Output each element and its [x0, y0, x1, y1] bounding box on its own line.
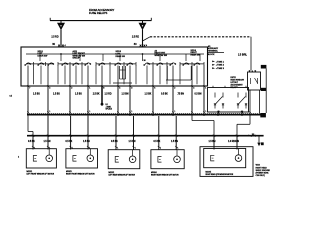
svg-text:DOOR SW: DOOR SW — [38, 55, 48, 57]
wire - top feed bus from accessory fuse relays — [50, 20, 152, 22]
svg-text:RIGHT FRONT WINDOW LIFT MOTOR: RIGHT FRONT WINDOW LIFT MOTOR — [66, 173, 95, 175]
pins - switch box top — [212, 86, 214, 88]
svg-text:0.5 BK: 0.5 BK — [154, 141, 161, 143]
wires - internal links in switch group — [113, 82, 132, 84]
svg-text:1.5 BN: 1.5 BN — [44, 141, 51, 143]
svg-text:1.5 BU: 1.5 BU — [83, 141, 90, 143]
svg-text:M33/1: M33/1 — [27, 171, 33, 173]
svg-text:1.5 BU: 1.5 BU — [53, 93, 60, 95]
svg-text:2.5 RD: 2.5 RD — [132, 36, 139, 38]
svg-text:2.5 RD: 2.5 RD — [51, 36, 58, 38]
svg-text:TERMINAL: TERMINAL — [208, 50, 219, 53]
svg-text:C36 ONLY): C36 ONLY) — [256, 175, 266, 177]
wires - harness drops to connector rail — [28, 86, 204, 113]
connector X pins at left box entry — [58, 45, 60, 47]
svg-text:WINDOW SW: WINDOW SW — [155, 55, 168, 57]
motor M33/2 - left rear window lift motor — [108, 150, 140, 169]
svg-text:FUSE RELAYS: FUSE RELAYS — [89, 11, 108, 15]
svg-text:4: 4 — [193, 88, 194, 90]
svg-text:1: 1 — [89, 88, 90, 90]
wires - switch outputs to box bottom pins — [28, 66, 204, 87]
svg-text:1.5 BN: 1.5 BN — [129, 141, 136, 143]
connector X pins at right box entry — [140, 45, 142, 47]
svg-text:6: 6 — [154, 88, 155, 90]
wire - connector X35 drop to rail end — [265, 69, 267, 114]
svg-text:2: 2 — [18, 157, 19, 159]
motor M33/4 - right rear window lift motor — [151, 150, 184, 169]
relay K67/2 - rear window liftout adjustment relay — [248, 72, 261, 90]
svg-text:SPLICE: SPLICE — [106, 109, 113, 111]
svg-text:1: 1 — [89, 111, 90, 113]
wire - heavy feed 2.5 BK with splice — [101, 86, 103, 104]
box - right rear quarter window assembly — [200, 147, 253, 177]
svg-text:BLOCK: BLOCK — [208, 54, 215, 56]
wire - branch to rear window relay (dashed) — [143, 37, 151, 41]
svg-text:0.5 BK: 0.5 BK — [28, 141, 35, 143]
svg-text:1.0 RD/GN: 1.0 RD/GN — [228, 141, 239, 143]
tick marks - line2 crossing at right — [249, 135, 252, 137]
svg-text:0.5 BK: 0.5 BK — [111, 141, 118, 143]
svg-text:1: 1 — [205, 111, 206, 113]
splice line / body harness bar — [27, 135, 264, 137]
switch contacts - right rear — [214, 93, 216, 98]
switches - rocker contact row inside switch group — [25, 62, 204, 66]
svg-text:1.5 BN: 1.5 BN — [209, 141, 216, 143]
connector label right of relay — [261, 88, 266, 91]
switch S21/2 - right rear window switch — [208, 88, 249, 113]
svg-text:M33/2: M33/2 — [109, 172, 115, 174]
svg-text:30: 30 — [144, 60, 146, 62]
svg-text:0.5 BK: 0.5 BK — [66, 141, 73, 143]
svg-text:1: 1 — [177, 147, 178, 149]
svg-text:GROUP: GROUP — [73, 58, 81, 60]
svg-text:1.5 BU: 1.5 BU — [75, 93, 82, 95]
svg-text:1: 1 — [49, 111, 50, 113]
wires - drops from splice line into motors — [32, 136, 237, 150]
svg-text:5: 5 — [119, 88, 120, 90]
label list - +TIME circuits — [212, 61, 215, 63]
svg-text:+TIME 1: +TIME 1 — [216, 61, 225, 63]
svg-text:M33/5: M33/5 — [206, 172, 212, 174]
wires - relay outputs — [249, 90, 251, 113]
pins - rail junction ticks — [27, 111, 251, 116]
svg-text:0.5 BK: 0.5 BK — [161, 93, 168, 95]
svg-text:2.5 BK: 2.5 BK — [93, 93, 100, 95]
svg-text:0.5: 0.5 — [10, 96, 13, 98]
svg-text:1: 1 — [131, 111, 132, 113]
connector arrow C5a (left feed) — [57, 23, 65, 30]
svg-text:LEFT FRONT WINDOW LIFT MOTOR: LEFT FRONT WINDOW LIFT MOTOR — [27, 173, 55, 175]
svg-text:3: 3 — [131, 88, 132, 90]
svg-text:M33/3: M33/3 — [66, 171, 72, 173]
svg-text:1.5 RD: 1.5 RD — [105, 93, 112, 95]
motor M33/5 - right rear quarter window motor — [204, 149, 246, 168]
svg-text:1.5 BU: 1.5 BU — [33, 93, 40, 95]
svg-text:+TIME 2: +TIME 2 — [216, 65, 225, 67]
svg-text:8: 8 — [103, 88, 104, 90]
svg-text:1: 1 — [117, 147, 118, 149]
svg-text:1: 1 — [174, 111, 175, 113]
pins - box bottom pin numbers — [27, 85, 206, 89]
ground label block W10 — [261, 142, 264, 145]
motor M33/1 - left front window lift motor — [26, 149, 56, 168]
svg-text:2: 2 — [71, 88, 72, 90]
ground wire W10 — [258, 136, 260, 143]
box - front power window switch group S21 — [21, 47, 208, 86]
junction - ground branch — [255, 135, 257, 137]
svg-text:7: 7 — [29, 88, 30, 90]
svg-text:1.5 BN: 1.5 BN — [122, 93, 129, 95]
svg-text:REAR SW: REAR SW — [191, 53, 200, 56]
wire - right feed drop — [142, 21, 144, 24]
svg-text:1.5 BN: 1.5 BN — [171, 141, 178, 143]
pins - relay top — [249, 70, 250, 72]
svg-text:1: 1 — [160, 147, 161, 149]
wire - relay feed drop — [250, 37, 252, 71]
svg-text:M33/4: M33/4 — [151, 172, 157, 174]
connector label at rail end — [260, 113, 266, 117]
wires - bus feed drops to switch rails — [40, 54, 200, 61]
connector label X35/4 — [261, 65, 267, 69]
wires - drops from rail to lower splice line — [28, 116, 250, 136]
svg-text:0.5 BN: 0.5 BN — [195, 93, 202, 95]
svg-text:+TIME 3: +TIME 3 — [216, 68, 225, 70]
motor M33/3 - right front window lift motor — [66, 149, 98, 168]
wire - left feed drop — [60, 21, 62, 24]
connector arrow C5b (right feed) — [139, 23, 147, 30]
svg-text:2.5 B/RL: 2.5 B/RL — [238, 54, 248, 56]
svg-text:2: 2 — [174, 88, 175, 90]
relay internals — [250, 78, 252, 84]
svg-text:1: 1 — [135, 147, 136, 149]
wires - switch outputs to rail — [218, 111, 220, 114]
contact cluster - left rear section — [119, 66, 121, 79]
svg-text:1: 1 — [205, 88, 206, 90]
wire - internal terminal 30 bus — [26, 53, 204, 55]
svg-text:1.5 BK: 1.5 BK — [145, 93, 152, 95]
svg-text:.75 BN: .75 BN — [177, 93, 184, 95]
connector rail X26 (hatched bar) — [27, 114, 261, 116]
svg-text:4: 4 — [49, 88, 50, 90]
